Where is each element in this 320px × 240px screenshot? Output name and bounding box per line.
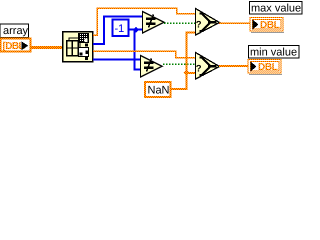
svg-text:max value: max value bbox=[251, 3, 301, 15]
svg-text:min value: min value bbox=[250, 47, 297, 59]
label: min value bbox=[249, 46, 300, 59]
max element mini-icon (dark checkered) bbox=[79, 34, 89, 43]
svg-text:DBL: DBL bbox=[258, 62, 278, 73]
min element mini-icon (light) bbox=[79, 48, 89, 57]
svg-text:[DBL: [DBL bbox=[3, 41, 25, 52]
min index nub bbox=[85, 57, 88, 60]
wire: max value (orange) icon to select1 t bbox=[93, 8, 195, 35]
junction -1 wire bbox=[133, 27, 139, 33]
svg-text:NaN: NaN bbox=[148, 85, 170, 97]
wire: max index (blue) icon to neq1 top input bbox=[93, 17, 143, 44]
wire: -1 to neq1 bottom input bbox=[129, 29, 143, 31]
indicator: min value DBL bbox=[248, 60, 282, 75]
indicator: max value DBL bbox=[250, 18, 284, 33]
wire: min index (blue) icon to neq2 top input bbox=[93, 59, 140, 61]
svg-text:DBL: DBL bbox=[260, 20, 280, 31]
array grid glyph (front) bbox=[67, 41, 79, 56]
wire: min value (orange) icon to select2 t bbox=[93, 51, 195, 57]
max index nub bbox=[85, 44, 88, 47]
wire: select2 output to min value indicator bbox=[219, 65, 248, 67]
op: Select select1 bbox=[196, 9, 220, 36]
wire: boolean neq1 to select1 s (green dotted) bbox=[164, 22, 195, 24]
svg-text:?: ? bbox=[196, 20, 202, 31]
wire: select1 output to max value indicator bbox=[219, 22, 250, 24]
node: Array Max & Min icon bbox=[63, 32, 93, 62]
svg-text:?: ? bbox=[196, 64, 202, 75]
array grid glyph (back) bbox=[69, 38, 80, 53]
wire: boolean neq2 to select2 s (green dotted) bbox=[163, 63, 195, 65]
label: max value bbox=[250, 2, 303, 15]
constant -1 bbox=[113, 20, 129, 37]
wire: -1 branch down to neq2 bbox=[135, 30, 141, 70]
wire: array (thick orange) terminal to AMM icon bbox=[31, 46, 62, 49]
constant NaN bbox=[145, 82, 171, 97]
label: array bbox=[0, 24, 29, 38]
terminal: array DBL control bbox=[1, 39, 31, 53]
svg-text:array: array bbox=[3, 25, 29, 37]
op: Select select2 bbox=[196, 53, 220, 80]
op: Not Equal? neq2 bbox=[141, 56, 163, 78]
op: Not Equal? neq1 bbox=[143, 12, 165, 34]
svg-text:-1: -1 bbox=[115, 23, 125, 35]
wire: NaN to select1 f and select2 f (orange riser) bbox=[170, 33, 195, 90]
